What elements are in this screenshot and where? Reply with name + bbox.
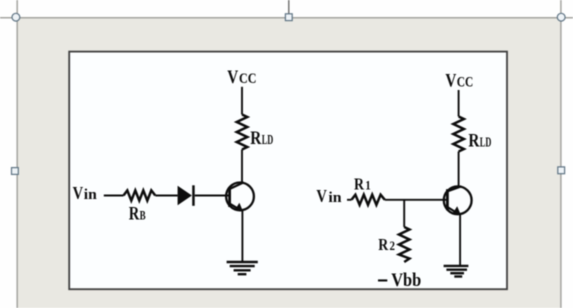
selection handle top-right (circle)	[557, 13, 565, 21]
svg-text:R: R	[468, 130, 479, 151]
wire R1 to base (right)	[385, 199, 448, 201]
selection frame left line	[16, 0, 18, 308]
resistor RLD (left)	[237, 115, 248, 150]
selection handle right-middle (square)	[558, 167, 565, 174]
transistor Q2 emitter arrowhead	[453, 206, 462, 215]
ground (right)	[444, 266, 469, 277]
diode D1 anode triangle	[178, 186, 192, 205]
transistor Q2 base bar	[446, 189, 449, 210]
resistor RB	[124, 190, 156, 200]
svg-text:V: V	[73, 183, 84, 203]
resistor R1	[352, 195, 385, 205]
svg-text:LD: LD	[480, 134, 492, 149]
transistor Q1 emitter stroke	[230, 204, 240, 210]
wire Vin to RB	[104, 195, 124, 197]
svg-text:V: V	[445, 71, 456, 92]
node -Vbb label	[378, 279, 387, 281]
svg-text:2: 2	[390, 239, 396, 253]
transistor Q2 circle	[444, 186, 472, 214]
selection handle top-left (circle)	[12, 13, 20, 21]
svg-text:R: R	[378, 235, 389, 254]
transistor Q1 collector stroke	[230, 182, 244, 189]
wire Vcc to RLD (left)	[241, 87, 243, 115]
selection handle left-middle (square)	[12, 168, 19, 175]
svg-text:R: R	[129, 204, 140, 225]
svg-text:B: B	[140, 209, 146, 223]
rotation handle stem	[288, 0, 290, 14]
inner schematic box	[69, 52, 507, 290]
svg-text:1: 1	[365, 179, 371, 193]
ground (left)	[227, 262, 258, 274]
selection frame top line	[0, 17, 573, 19]
transistor Q1 base bar	[228, 187, 231, 207]
transistor Q1 circle	[226, 183, 254, 211]
transistor Q1 emitter arrowhead	[235, 203, 244, 212]
wire Vin to R1	[347, 199, 352, 201]
resistor R2	[399, 227, 410, 262]
svg-text:Vbb: Vbb	[391, 270, 421, 291]
svg-text:in: in	[328, 190, 341, 206]
wire emitter to ground (right)	[459, 213, 461, 266]
wire emitter to ground (left)	[241, 210, 243, 263]
selection handle top-middle (square)	[285, 14, 292, 21]
transistor Q2 collector stroke	[447, 186, 461, 191]
svg-text:in: in	[84, 187, 97, 203]
selection frame right line	[560, 0, 562, 308]
resistor RLD (right)	[453, 117, 464, 152]
svg-text:V: V	[316, 186, 327, 206]
transistor Q2 emitter stroke	[447, 207, 457, 213]
svg-text:LD: LD	[262, 132, 274, 147]
wire RLD to collector (right)	[458, 152, 460, 187]
diode D1 cathode bar	[192, 185, 195, 206]
wire junction to R2	[403, 200, 405, 227]
svg-text:CC: CC	[239, 71, 257, 87]
wire RB to diode	[155, 195, 177, 197]
wire Vcc to RLD (right)	[458, 90, 460, 117]
wire RLD to collector (left)	[241, 150, 243, 183]
svg-text:R: R	[250, 128, 261, 149]
svg-text:R: R	[354, 175, 365, 194]
svg-text:CC: CC	[457, 75, 474, 91]
svg-text:V: V	[227, 67, 238, 88]
wire diode to base (left)	[195, 195, 230, 197]
